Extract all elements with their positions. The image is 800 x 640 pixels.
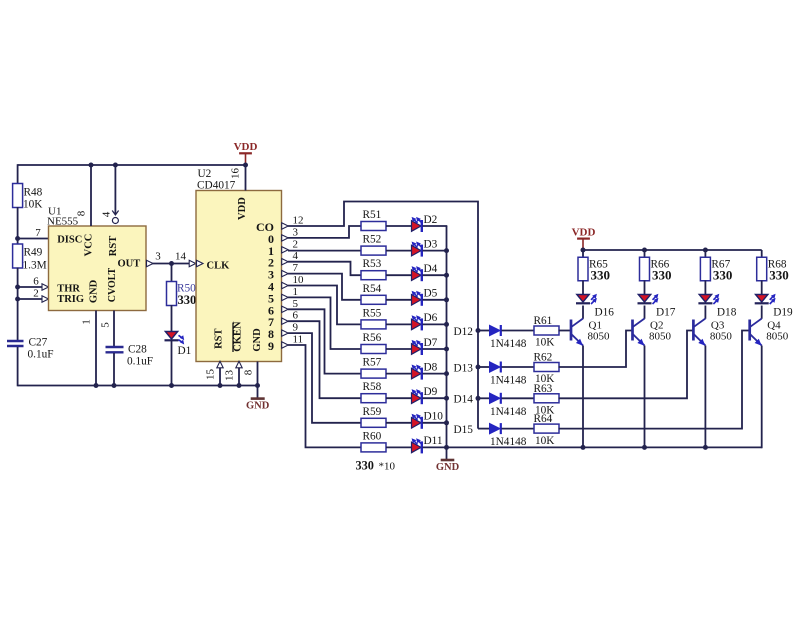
wire R48 to pin7 xyxy=(17,207,19,244)
wire D17 to Q2 collector xyxy=(644,306,646,319)
svg-text:R63: R63 xyxy=(534,383,553,395)
wire output 0 to R51 xyxy=(288,226,361,238)
wire output 3 to R54 xyxy=(288,274,361,300)
wire pin 5 CVOLT xyxy=(100,311,115,347)
wire rail to R65 xyxy=(582,250,584,258)
svg-text:D3: D3 xyxy=(424,238,438,250)
wire R62 to Q2 base xyxy=(559,331,632,368)
svg-text:D14: D14 xyxy=(454,394,474,406)
wire D1 to ground rail xyxy=(171,340,173,386)
wire bus to D14 xyxy=(478,397,490,399)
svg-text:0.1uF: 0.1uF xyxy=(127,355,153,367)
transistor Q2 8050 xyxy=(633,319,672,346)
label TRIG xyxy=(57,294,84,305)
wire rail to R68 xyxy=(761,250,763,258)
svg-text:D18: D18 xyxy=(717,307,737,319)
svg-text:OUT: OUT xyxy=(118,259,141,270)
wire R61 to Q1 base xyxy=(559,330,572,332)
pin 3 output 0 xyxy=(268,226,299,246)
node C28 junction xyxy=(112,383,117,388)
svg-text:8050: 8050 xyxy=(649,331,672,343)
wire pin 15 RST xyxy=(205,361,224,385)
svg-text:R55: R55 xyxy=(363,307,382,319)
node D10 junction xyxy=(444,420,449,425)
wire pin 13 CKEN xyxy=(224,361,243,385)
wire D6 cathode xyxy=(423,323,448,325)
wire LED cathode rail xyxy=(446,226,448,460)
wire R59 to D10 xyxy=(386,422,412,424)
diode D14 1N4148 xyxy=(490,393,527,418)
svg-text:D11: D11 xyxy=(424,435,443,447)
node D7 junction xyxy=(444,347,449,352)
node D13 junction xyxy=(476,365,481,370)
node R67 junction xyxy=(703,248,708,253)
node D6 junction xyxy=(444,322,449,327)
label D13 xyxy=(454,362,474,374)
svg-text:3: 3 xyxy=(155,251,161,263)
svg-text:D6: D6 xyxy=(424,312,438,324)
wire output 4 to R55 xyxy=(288,286,361,325)
node R50 junction xyxy=(169,261,174,266)
LED D19 xyxy=(755,294,793,319)
wire D4 cathode xyxy=(423,274,448,276)
svg-text:R48: R48 xyxy=(24,187,43,199)
LED D8 xyxy=(412,361,438,379)
wire OUT to R50 xyxy=(171,264,173,283)
wire D14 to R63 xyxy=(502,397,535,399)
svg-text:D7: D7 xyxy=(424,337,438,349)
svg-text:D19: D19 xyxy=(773,307,793,319)
svg-text:C27: C27 xyxy=(29,336,48,348)
resistor R48 xyxy=(13,184,44,211)
svg-text:R62: R62 xyxy=(534,352,553,364)
svg-text:8: 8 xyxy=(243,369,255,375)
wire D18 to Q3 collector xyxy=(704,306,706,319)
wire output 8 to R59 xyxy=(288,333,361,423)
resistor R49 xyxy=(13,244,47,272)
wire rail to R67 xyxy=(704,250,706,258)
wire C28 to ground rail xyxy=(113,353,115,386)
svg-text:D9: D9 xyxy=(424,386,438,398)
svg-text:GND: GND xyxy=(89,279,100,303)
node pin15 junction xyxy=(218,383,223,388)
svg-text:8050: 8050 xyxy=(766,331,789,343)
node D8 junction xyxy=(444,371,449,376)
node R65 junction xyxy=(581,248,586,253)
LED D6 xyxy=(412,312,438,330)
wire bus to D12 xyxy=(478,330,490,332)
svg-text:R51: R51 xyxy=(363,209,382,221)
wire D15 to R64 xyxy=(502,428,535,430)
svg-text:5: 5 xyxy=(293,298,299,310)
svg-text:8050: 8050 xyxy=(588,331,611,343)
svg-text:GND: GND xyxy=(246,401,270,412)
wire D19 to Q4 collector xyxy=(761,306,763,319)
svg-text:1.3M: 1.3M xyxy=(23,260,47,272)
svg-text:2: 2 xyxy=(33,288,39,300)
svg-text:NE555: NE555 xyxy=(47,216,79,228)
LED D4 xyxy=(412,263,438,281)
resistor R50 xyxy=(167,282,197,307)
svg-text:6: 6 xyxy=(293,310,299,322)
pin 11 output 9 xyxy=(268,334,303,354)
diode D15 1N4148 xyxy=(490,423,527,448)
svg-text:TRIG: TRIG xyxy=(57,294,84,305)
svg-text:2: 2 xyxy=(293,238,299,250)
node D12 junction xyxy=(476,328,481,333)
node pin8 junction xyxy=(89,163,94,168)
wire R66 to D17 xyxy=(644,281,646,295)
wire R53 to D4 xyxy=(386,274,412,276)
wire R51 to D2 xyxy=(386,225,412,227)
svg-text:330: 330 xyxy=(713,268,733,283)
svg-text:1N4148: 1N4148 xyxy=(490,338,527,350)
svg-text:D17: D17 xyxy=(656,307,676,319)
resistor R58 xyxy=(361,381,386,403)
node pin6 junction xyxy=(15,285,20,290)
LED D10 xyxy=(412,411,444,429)
ground GND U2 xyxy=(246,399,270,412)
svg-text:VCC: VCC xyxy=(84,234,95,257)
wire R55 to D6 xyxy=(386,323,412,325)
svg-text:C28: C28 xyxy=(128,344,147,356)
LED D2 xyxy=(412,214,438,232)
wire D5 cathode xyxy=(423,299,448,301)
label DISC xyxy=(57,235,82,246)
wire bottom ground rail xyxy=(18,385,258,387)
svg-text:13: 13 xyxy=(224,370,236,382)
wire R60 to D11 xyxy=(386,446,412,448)
svg-text:CVOLT: CVOLT xyxy=(107,267,118,302)
wire output 2 to R53 xyxy=(288,262,361,276)
LED D1 xyxy=(165,332,192,358)
label RST xyxy=(108,236,119,256)
wire VDD stub xyxy=(245,153,247,165)
svg-text:1N4148: 1N4148 xyxy=(490,375,527,387)
svg-text:D13: D13 xyxy=(454,362,474,374)
resistor R66 xyxy=(640,257,672,282)
label VCC xyxy=(84,234,95,257)
op-amp U1 NE555 body xyxy=(47,206,146,311)
VDD supply driver xyxy=(572,226,596,238)
pin 6 output 7 xyxy=(268,310,299,330)
wire C27 to ground rail xyxy=(17,347,19,386)
svg-text:R64: R64 xyxy=(534,413,553,425)
wire R52 to D3 xyxy=(386,250,412,252)
wire driver VDD rail xyxy=(583,249,762,251)
svg-text:CKEN: CKEN xyxy=(233,321,244,352)
resistor R56 xyxy=(361,332,386,354)
resistor R59 xyxy=(361,406,386,428)
resistor R62 xyxy=(534,352,560,386)
wire output 1 to R52 xyxy=(288,250,361,252)
transistor Q4 8050 xyxy=(750,319,789,346)
resistor R64 xyxy=(534,413,560,447)
svg-text:14: 14 xyxy=(175,251,187,263)
wire OUT to CLK xyxy=(146,251,196,267)
wire pin 8 GND U2 xyxy=(243,362,258,399)
LED D11 xyxy=(412,435,443,453)
svg-text:RST: RST xyxy=(214,328,225,348)
svg-text:GND: GND xyxy=(252,328,263,352)
wire R58 to D9 xyxy=(386,397,412,399)
wire D3 cathode xyxy=(423,250,448,252)
svg-text:DISC: DISC xyxy=(57,235,82,246)
node pin8 U2 junction xyxy=(255,383,260,388)
svg-text:4: 4 xyxy=(101,211,113,217)
wire D12 to R61 xyxy=(502,330,535,332)
svg-text:VDD: VDD xyxy=(572,226,596,238)
pin 4 output 2 xyxy=(268,250,299,270)
label D14 xyxy=(454,394,474,406)
svg-text:THR: THR xyxy=(57,284,80,295)
pin 10 output 4 xyxy=(268,274,304,294)
node pin4 junction xyxy=(113,163,118,168)
svg-text:VDD: VDD xyxy=(234,141,258,153)
wire Q3 emitter xyxy=(704,346,706,449)
resistor R51 xyxy=(361,209,386,231)
label OUT xyxy=(118,259,141,270)
LED D9 xyxy=(412,386,438,404)
node pin2 junction xyxy=(15,297,20,302)
diode D13 1N4148 xyxy=(490,362,527,387)
capacitor C27 xyxy=(7,336,54,360)
label D15 xyxy=(454,424,474,436)
svg-text:R58: R58 xyxy=(363,381,382,393)
resistor R57 xyxy=(361,357,386,379)
LED D5 xyxy=(412,288,438,306)
svg-text:10K: 10K xyxy=(535,435,555,447)
node pin7 junction xyxy=(15,236,20,241)
node D3 junction xyxy=(444,248,449,253)
svg-text:R54: R54 xyxy=(363,283,382,295)
wire R56 to D7 xyxy=(386,348,412,350)
wire VDD stub driver xyxy=(582,239,584,250)
svg-text:16: 16 xyxy=(230,168,242,180)
wire pin 14 CLK arrow xyxy=(197,260,231,271)
svg-text:0.1uF: 0.1uF xyxy=(28,348,54,360)
svg-text:330: 330 xyxy=(769,268,789,283)
wire R50 to D1 xyxy=(171,305,173,332)
resistor R52 xyxy=(361,234,386,256)
resistor R60 xyxy=(361,430,386,452)
wire output 7 to R58 xyxy=(288,321,361,398)
svg-text:GND: GND xyxy=(436,462,460,473)
pin 4 arrow and circle xyxy=(112,211,118,224)
LED D7 xyxy=(412,337,438,355)
resistor R63 xyxy=(534,383,560,417)
svg-text:R52: R52 xyxy=(363,234,382,246)
resistor R65 xyxy=(578,257,610,282)
wire R64 to Q4 base xyxy=(559,331,750,429)
node R66 junction xyxy=(642,248,647,253)
wire pin 16 VDD xyxy=(230,165,246,191)
svg-text:10: 10 xyxy=(293,274,305,286)
svg-text:9: 9 xyxy=(268,339,274,353)
label CVOLT xyxy=(107,267,118,302)
svg-text:R53: R53 xyxy=(363,258,382,270)
ground GND LED rail xyxy=(436,460,460,473)
svg-text:12: 12 xyxy=(293,215,304,227)
resistor R67 xyxy=(700,257,732,282)
wire R54 to D5 xyxy=(386,299,412,301)
VDD supply U2 xyxy=(234,141,258,153)
wire pin 1 GND xyxy=(81,311,97,387)
wire D10 cathode xyxy=(423,422,448,424)
node VDD junction xyxy=(243,163,248,168)
resistor R54 xyxy=(361,283,386,305)
pin 9 output 8 xyxy=(268,322,299,342)
wire rail to R66 xyxy=(644,250,646,258)
LED D17 xyxy=(638,294,676,319)
wire D11 cathode xyxy=(423,446,448,448)
label D12 xyxy=(454,326,474,338)
wire pin 4 RST xyxy=(101,165,116,217)
wire pin 2 TRIG xyxy=(18,288,49,303)
IC U2 CD4017 body xyxy=(196,168,282,362)
svg-text:330: 330 xyxy=(178,293,197,307)
svg-text:D12: D12 xyxy=(454,326,474,338)
svg-text:10K: 10K xyxy=(23,199,43,211)
wire Q1 emitter xyxy=(582,346,584,449)
svg-text:1N4148: 1N4148 xyxy=(490,406,527,418)
resistor R53 xyxy=(361,258,386,280)
resistor R68 xyxy=(757,257,789,282)
diode D12 1N4148 xyxy=(490,325,527,350)
svg-text:D16: D16 xyxy=(595,307,615,319)
pin 12 output CO xyxy=(256,215,304,235)
node Q3 emitter junction xyxy=(703,445,708,450)
svg-text:R49: R49 xyxy=(24,247,43,259)
svg-text:RST: RST xyxy=(108,236,119,256)
svg-text:D1: D1 xyxy=(178,345,192,357)
svg-text:7: 7 xyxy=(35,227,41,239)
label 330 x10 xyxy=(356,459,396,473)
svg-text:D15: D15 xyxy=(454,424,474,436)
wire Q2 emitter xyxy=(644,346,646,449)
wire output 6 to R57 xyxy=(288,309,361,373)
svg-text:11: 11 xyxy=(293,334,304,346)
svg-text:330: 330 xyxy=(591,268,611,283)
wire D7 cathode xyxy=(423,348,448,350)
wire bus to D13 xyxy=(478,366,490,368)
svg-text:R57: R57 xyxy=(363,357,382,369)
label GND U2 xyxy=(252,328,263,352)
LED D3 xyxy=(412,238,438,256)
svg-text:D10: D10 xyxy=(424,411,444,423)
wire CO to diode bus xyxy=(288,202,478,429)
wire R49 to C27 xyxy=(17,268,19,341)
wire pin 7 DISC xyxy=(18,227,49,239)
wire emitter ground rail xyxy=(447,446,762,448)
transistor Q1 8050 xyxy=(571,319,610,346)
wire D13 to R62 xyxy=(502,366,535,368)
svg-text:8: 8 xyxy=(76,210,88,216)
svg-text:*10: *10 xyxy=(379,460,396,472)
svg-text:D2: D2 xyxy=(424,214,438,226)
pin 5 output 6 xyxy=(268,298,299,318)
svg-text:15: 15 xyxy=(205,369,217,381)
node D5 junction xyxy=(444,297,449,302)
svg-text:1: 1 xyxy=(293,286,299,298)
node LED rail ground junction xyxy=(444,445,449,450)
wire R68 to D19 xyxy=(761,281,763,295)
resistor R61 xyxy=(534,315,560,349)
svg-text:9: 9 xyxy=(293,322,299,334)
pin 7 output 3 xyxy=(268,262,299,282)
wire D2 cathode xyxy=(423,225,448,227)
LED D16 xyxy=(576,294,614,319)
wire pin 8 VCC xyxy=(76,165,92,226)
label GND U1 xyxy=(89,279,100,303)
wire D8 cathode xyxy=(423,373,448,375)
node Q2 emitter junction xyxy=(642,445,647,450)
node Q1 emitter junction xyxy=(581,445,586,450)
pin 2 output 1 xyxy=(268,238,298,257)
wire R67 to D18 xyxy=(704,281,706,295)
label CKEN U2 xyxy=(233,321,244,352)
svg-text:7: 7 xyxy=(293,262,299,274)
svg-text:U2: U2 xyxy=(198,168,212,180)
svg-text:D8: D8 xyxy=(424,361,438,373)
wire output 5 to R56 xyxy=(288,297,361,349)
svg-text:5: 5 xyxy=(100,322,112,328)
wire bus to D15 xyxy=(478,428,490,430)
svg-text:D5: D5 xyxy=(424,288,438,300)
resistor R55 xyxy=(361,307,386,329)
svg-text:R61: R61 xyxy=(534,315,553,327)
wire D9 cathode xyxy=(423,397,448,399)
svg-text:1N4148: 1N4148 xyxy=(490,436,527,448)
wire R57 to D8 xyxy=(386,373,412,375)
LED D18 xyxy=(698,294,736,319)
pin 1 output 5 xyxy=(268,286,298,306)
wire D16 to Q1 collector xyxy=(582,306,584,319)
node pin13 junction xyxy=(237,383,242,388)
label THR xyxy=(57,284,80,295)
svg-text:330: 330 xyxy=(652,268,672,283)
node D1 junction xyxy=(169,383,174,388)
svg-text:R56: R56 xyxy=(363,332,382,344)
label VDD U2 xyxy=(237,197,248,220)
transistor Q3 8050 xyxy=(693,319,732,346)
node D4 junction xyxy=(444,273,449,278)
wire left rail upper xyxy=(17,164,19,183)
svg-text:CD4017: CD4017 xyxy=(197,180,236,192)
svg-text:8050: 8050 xyxy=(710,331,733,343)
svg-text:3: 3 xyxy=(293,226,299,238)
wire Q4 emitter xyxy=(761,346,763,449)
wire pin 6 THR xyxy=(18,276,49,291)
node D9 junction xyxy=(444,396,449,401)
svg-text:10K: 10K xyxy=(535,337,555,349)
svg-text:330: 330 xyxy=(356,459,374,473)
svg-text:1: 1 xyxy=(81,319,93,325)
node D14 junction xyxy=(476,396,481,401)
wire output 9 to R60 xyxy=(288,345,361,447)
label RST U2 xyxy=(214,328,225,348)
wire R63 to Q3 base xyxy=(559,331,693,399)
svg-text:R59: R59 xyxy=(363,406,382,418)
svg-text:6: 6 xyxy=(33,276,39,288)
wire VCC top rail xyxy=(18,164,246,166)
svg-text:R60: R60 xyxy=(363,430,382,442)
capacitor C28 xyxy=(106,344,154,368)
svg-text:CLK: CLK xyxy=(207,260,231,271)
node pin1 junction xyxy=(94,383,99,388)
svg-text:VDD: VDD xyxy=(237,197,248,220)
svg-text:4: 4 xyxy=(293,250,299,262)
